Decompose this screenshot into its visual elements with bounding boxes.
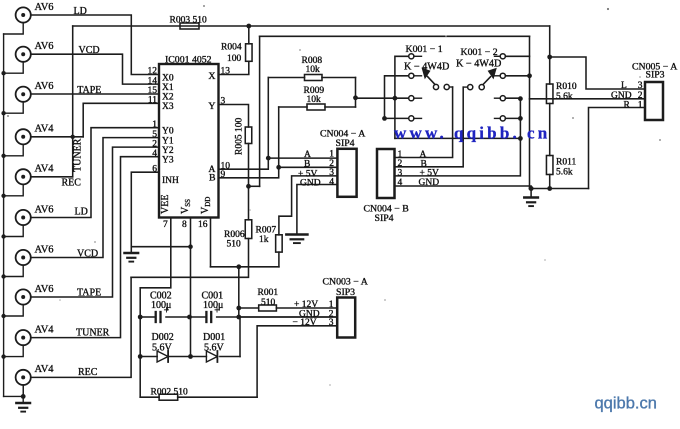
svg-text:X3: X3 bbox=[162, 102, 174, 112]
svg-text:+ 12V: + 12V bbox=[294, 300, 318, 310]
svg-text:AV6: AV6 bbox=[35, 244, 54, 255]
svg-text:100: 100 bbox=[227, 54, 242, 64]
svg-text:qqibb.cn: qqibb.cn bbox=[595, 395, 657, 413]
svg-text:SIP3: SIP3 bbox=[336, 287, 355, 298]
svg-text:1: 1 bbox=[329, 300, 334, 310]
svg-text:K001 − 2: K001 − 2 bbox=[461, 47, 498, 58]
svg-text:LD: LD bbox=[74, 6, 87, 17]
svg-text:100μ: 100μ bbox=[203, 300, 223, 311]
svg-text:AV4: AV4 bbox=[35, 364, 55, 375]
svg-text:100μ: 100μ bbox=[151, 300, 171, 311]
svg-text:3: 3 bbox=[398, 168, 403, 178]
svg-text:K − 4W4D: K − 4W4D bbox=[404, 62, 449, 73]
svg-text:CN003 − A: CN003 − A bbox=[323, 277, 368, 288]
svg-text:SIP4: SIP4 bbox=[336, 138, 355, 149]
svg-text:4: 4 bbox=[329, 178, 334, 188]
svg-text:3: 3 bbox=[329, 318, 334, 328]
svg-text:X0: X0 bbox=[162, 73, 174, 83]
svg-text:K001 − 1: K001 − 1 bbox=[406, 44, 443, 55]
svg-text:Y1: Y1 bbox=[162, 136, 174, 146]
svg-text:AV6: AV6 bbox=[35, 204, 54, 215]
svg-text:10k: 10k bbox=[307, 95, 322, 105]
svg-text:AV6: AV6 bbox=[35, 81, 54, 92]
svg-text:SIP4: SIP4 bbox=[375, 213, 394, 224]
svg-text:TUNER: TUNER bbox=[73, 138, 84, 172]
svg-text:R010: R010 bbox=[556, 82, 577, 92]
svg-text:3: 3 bbox=[638, 81, 643, 91]
svg-text:VEE: VEE bbox=[160, 195, 171, 214]
svg-text:510: 510 bbox=[261, 298, 276, 308]
svg-text:2: 2 bbox=[638, 91, 643, 101]
svg-text:X: X bbox=[208, 71, 215, 82]
svg-text:Y0: Y0 bbox=[162, 127, 174, 137]
svg-text:14: 14 bbox=[148, 76, 158, 86]
svg-text:8: 8 bbox=[182, 220, 187, 230]
svg-text:www.qqibb.cn: www.qqibb.cn bbox=[394, 124, 550, 143]
svg-text:− 12V: − 12V bbox=[293, 318, 317, 328]
svg-text:4: 4 bbox=[398, 178, 403, 188]
svg-text:SIP3: SIP3 bbox=[646, 70, 665, 81]
svg-text:A: A bbox=[420, 150, 427, 160]
svg-text:IC001 4052: IC001 4052 bbox=[165, 55, 212, 66]
svg-text:AV4: AV4 bbox=[35, 124, 55, 135]
svg-text:B: B bbox=[209, 172, 216, 183]
svg-text:R007: R007 bbox=[256, 226, 277, 236]
svg-text:2: 2 bbox=[152, 139, 157, 149]
svg-text:X2: X2 bbox=[162, 93, 174, 103]
svg-text:1: 1 bbox=[638, 101, 643, 111]
svg-text:16: 16 bbox=[198, 220, 208, 230]
svg-text:+ 5V: + 5V bbox=[420, 168, 439, 178]
svg-text:LD: LD bbox=[75, 207, 88, 218]
svg-text:TUNER: TUNER bbox=[76, 328, 110, 339]
svg-text:R: R bbox=[624, 101, 631, 111]
svg-text:K − 4W4D: K − 4W4D bbox=[456, 59, 501, 70]
svg-text:AV6: AV6 bbox=[35, 41, 54, 52]
svg-text:REC: REC bbox=[78, 367, 98, 378]
svg-text:5.6V: 5.6V bbox=[204, 342, 225, 353]
svg-text:510: 510 bbox=[227, 240, 242, 250]
svg-text:5.6V: 5.6V bbox=[152, 342, 173, 353]
svg-text:B: B bbox=[304, 159, 310, 169]
svg-text:X1: X1 bbox=[162, 83, 174, 93]
svg-text:TAPE: TAPE bbox=[77, 288, 101, 299]
svg-text:Y2: Y2 bbox=[162, 146, 174, 156]
svg-text:R002 510: R002 510 bbox=[151, 388, 188, 398]
svg-text:GND: GND bbox=[300, 179, 321, 189]
svg-text:5.6k: 5.6k bbox=[556, 92, 573, 102]
svg-text:R006: R006 bbox=[224, 230, 245, 240]
svg-text:AV4: AV4 bbox=[35, 164, 55, 175]
svg-text:VCD: VCD bbox=[79, 45, 100, 56]
svg-text:Y: Y bbox=[208, 101, 215, 112]
svg-text:Y3: Y3 bbox=[162, 156, 174, 166]
svg-text:REC: REC bbox=[62, 178, 82, 189]
svg-text:AV4: AV4 bbox=[35, 324, 55, 335]
svg-text:7: 7 bbox=[163, 220, 168, 230]
svg-text:GND: GND bbox=[611, 91, 632, 101]
svg-text:6: 6 bbox=[152, 164, 157, 174]
svg-text:L: L bbox=[621, 81, 627, 91]
svg-text:INH: INH bbox=[162, 176, 179, 186]
svg-text:10k: 10k bbox=[306, 65, 321, 75]
svg-text:12: 12 bbox=[148, 67, 158, 77]
svg-text:AV6: AV6 bbox=[35, 284, 54, 295]
svg-text:AV6: AV6 bbox=[35, 2, 54, 13]
svg-text:R003 510: R003 510 bbox=[170, 16, 207, 26]
svg-text:15: 15 bbox=[148, 86, 158, 96]
svg-text:R004: R004 bbox=[221, 43, 242, 53]
svg-text:GND: GND bbox=[419, 178, 440, 188]
svg-text:1: 1 bbox=[152, 120, 157, 130]
svg-text:5: 5 bbox=[152, 130, 157, 140]
svg-text:R011: R011 bbox=[556, 158, 576, 168]
svg-text:R005 100: R005 100 bbox=[235, 118, 245, 155]
svg-text:1k: 1k bbox=[259, 235, 269, 245]
svg-text:3: 3 bbox=[329, 168, 334, 178]
svg-text:VCD: VCD bbox=[77, 249, 98, 260]
svg-text:5.6k: 5.6k bbox=[556, 168, 573, 178]
svg-text:TAPE: TAPE bbox=[77, 85, 101, 96]
svg-text:11: 11 bbox=[148, 96, 157, 106]
svg-text:4: 4 bbox=[152, 149, 157, 159]
svg-text:R001: R001 bbox=[258, 288, 279, 298]
